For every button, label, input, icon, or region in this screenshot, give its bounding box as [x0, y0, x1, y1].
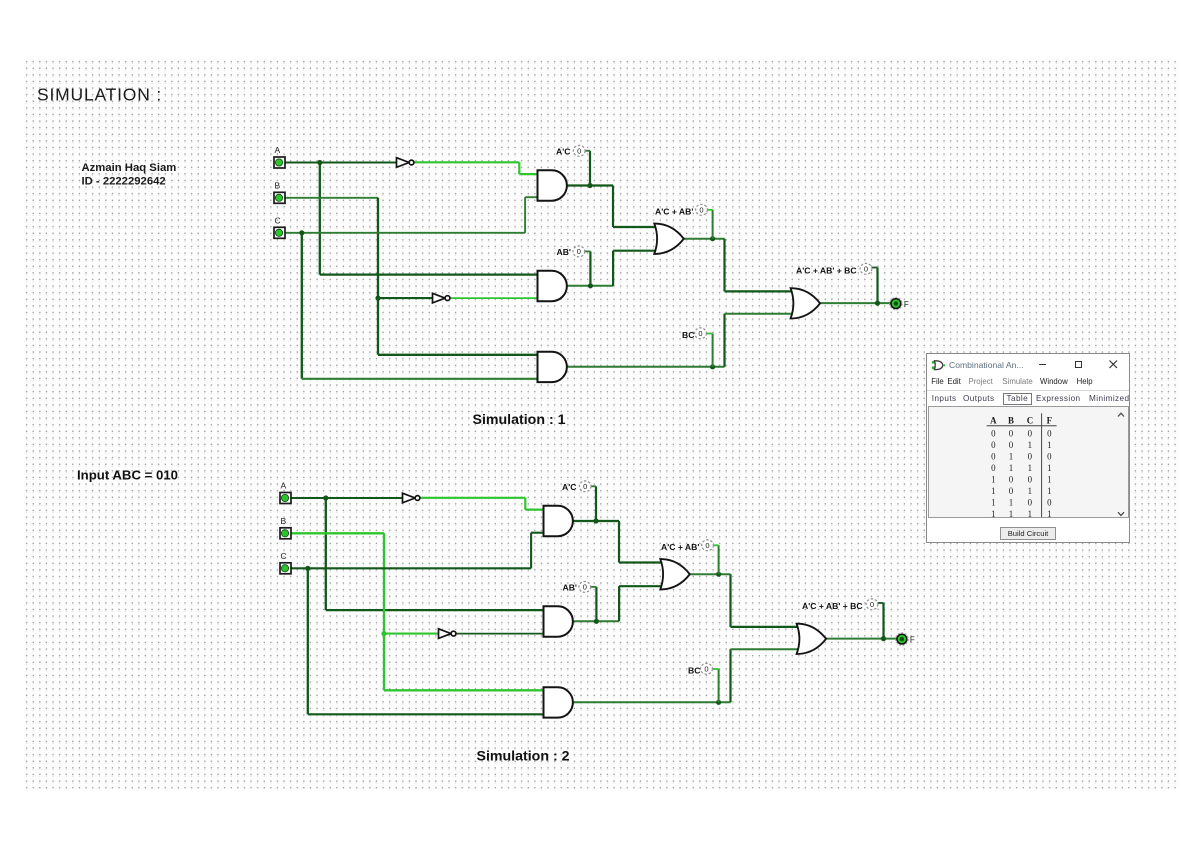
svg-text:A'C + AB': A'C + AB' — [655, 207, 693, 217]
svg-text:1: 1 — [1008, 463, 1012, 473]
svg-text:F: F — [910, 635, 915, 644]
svg-text:C: C — [1026, 415, 1032, 425]
probe A'C + AB' (sim 2) — [702, 540, 714, 551]
OR gate U7 sum2 (sim 2) — [797, 624, 827, 654]
svg-text:1: 1 — [991, 509, 995, 519]
wire AND2 rise to OR1 (sim 1) — [612, 251, 614, 286]
wire C to AND3 bottom input (sim 1) — [302, 378, 539, 380]
node AND2 output node (sim 1) — [588, 283, 593, 288]
truth table — [960, 407, 1100, 523]
node OR2 output node (sim 2) — [881, 636, 886, 641]
svg-text:A'C: A'C — [562, 482, 576, 492]
wire B horizontal (sim 2) — [291, 532, 384, 534]
svg-text:1: 1 — [1047, 440, 1051, 450]
wire NOT1 output (sim 2) — [420, 497, 526, 499]
probe A'C + AB' + BC (sim 2) — [866, 599, 878, 610]
wire AND3 probe stub (sim 1) — [707, 333, 713, 335]
svg-text:C: C — [275, 216, 281, 226]
node AND1 output node (sim 1) — [587, 183, 592, 188]
wire OR2 top input (sim 2) — [731, 626, 800, 628]
svg-text:1: 1 — [1027, 486, 1031, 496]
wire NOT1 output drop (sim 2) — [524, 498, 526, 510]
node OR1 output node (sim 2) — [716, 572, 721, 577]
wire AND1 probe stub (sim 2) — [591, 485, 597, 487]
NOT gate U1 NOT A (sim 1) — [397, 158, 414, 168]
AND gate U5 BC (sim 1) — [538, 352, 567, 382]
wire NOT2 output to AND2 bottom input (sim 2) — [457, 633, 545, 635]
svg-text:B: B — [1008, 415, 1014, 425]
svg-text:1: 1 — [991, 474, 995, 484]
probe A'C + AB' + BC (sim 1) — [860, 263, 872, 274]
svg-text:A'C + AB' + BC: A'C + AB' + BC — [796, 266, 857, 276]
scrollbar down arrow — [1117, 511, 1125, 517]
table panel — [928, 406, 1130, 519]
svg-text:A: A — [990, 415, 997, 425]
wire OR1 drop to OR2 (sim 1) — [723, 239, 725, 292]
svg-text:0: 0 — [991, 428, 996, 438]
AND gate U4 AB-prime (sim 1) — [538, 271, 567, 301]
wire OR2 top input (sim 1) — [725, 290, 794, 292]
svg-text:F: F — [904, 300, 909, 309]
svg-text:0: 0 — [864, 265, 868, 274]
wire A vertical rail (sim 1) — [319, 163, 321, 275]
svg-text:Simulation : 1: Simulation : 1 — [473, 412, 566, 428]
probe A'C (sim 2) — [579, 481, 591, 492]
svg-text:B: B — [275, 181, 281, 191]
wire AND3 output (sim 2) — [573, 701, 731, 703]
wire NOT1 output drop (sim 1) — [518, 162, 520, 174]
node A branch (sim 2) — [323, 495, 328, 500]
titlebar icon — [932, 360, 945, 371]
wire AND1 drop to OR1 (sim 1) — [612, 186, 614, 228]
wire B vertical rail (sim 1) — [377, 198, 379, 355]
input pin A (sim 1) — [274, 157, 285, 168]
svg-text:A: A — [281, 481, 287, 491]
probe A'C + AB' (sim 1) — [696, 204, 708, 215]
minimize button — [1039, 364, 1046, 366]
window title — [949, 360, 1024, 370]
svg-text:Azmain Haq Siam: Azmain Haq Siam — [82, 162, 177, 174]
wire OR1 top input (sim 2) — [619, 561, 664, 563]
AND gate U3 A-primeC (sim 2) — [544, 506, 573, 536]
tab bar — [927, 394, 1129, 406]
svg-text:AB': AB' — [557, 247, 571, 257]
wire A vertical rail (sim 2) — [325, 498, 327, 610]
wire AND2 probe riser (sim 2) — [595, 587, 597, 621]
wire OR2 output (sim 1) — [819, 302, 891, 304]
wire OR1 output (sim 1) — [684, 238, 725, 240]
wire AND1 output (sim 2) — [573, 520, 620, 522]
wire OR1 probe stub (sim 1) — [707, 209, 713, 211]
wire AND2 output (sim 2) — [573, 620, 620, 622]
scrollbar up arrow — [1117, 412, 1125, 418]
node OR1 output node (sim 1) — [710, 236, 715, 241]
svg-text:0: 0 — [577, 247, 581, 256]
svg-text:0: 0 — [1047, 451, 1052, 461]
wire OR2 bottom input (sim 1) — [725, 313, 794, 315]
wire OR2 bottom input (sim 2) — [731, 648, 800, 650]
svg-text:SIMULATION :: SIMULATION : — [37, 84, 162, 104]
node AND1 output node (sim 2) — [593, 518, 598, 523]
node B branch to NOT2 (sim 2) — [381, 631, 386, 636]
svg-text:AB': AB' — [563, 583, 577, 593]
svg-text:0: 0 — [1008, 440, 1013, 450]
node B branch to NOT2 (sim 1) — [375, 296, 380, 301]
wire AND3 output (sim 1) — [567, 366, 725, 368]
svg-text:0: 0 — [705, 541, 709, 550]
wire OR2 probe riser (sim 1) — [876, 268, 878, 304]
svg-text:0: 0 — [1027, 451, 1032, 461]
wire AND3 probe riser (sim 2) — [718, 669, 720, 702]
wire AND3 rise to OR2 (sim 1) — [723, 314, 725, 367]
wire OR2 output (sim 2) — [825, 638, 897, 640]
svg-text:0: 0 — [1027, 474, 1032, 484]
svg-text:Input ABC = 010: Input ABC = 010 — [77, 468, 178, 483]
close button — [1109, 360, 1118, 369]
probe A'C (sim 1) — [573, 145, 585, 156]
wire C to AND3 bottom input (sim 2) — [308, 713, 545, 715]
wire C vertical rail (sim 2) — [307, 568, 309, 714]
OR gate U6 sum1 (sim 1) — [654, 224, 684, 254]
probe AB' (sim 2) — [579, 582, 591, 593]
Build Circuit button — [1000, 527, 1056, 540]
menu bar — [927, 377, 1129, 388]
svg-text:1: 1 — [1047, 463, 1051, 473]
svg-text:0: 0 — [991, 451, 996, 461]
svg-text:0: 0 — [870, 600, 874, 609]
AND gate U4 AB-prime (sim 2) — [544, 606, 573, 636]
wire B to AND3 top input (sim 1) — [378, 354, 539, 356]
output pin F (sim 1) — [890, 297, 903, 310]
menu separator — [927, 390, 1130, 391]
wire B to NOT2 input (sim 2) — [384, 633, 439, 635]
wire B to AND3 top input (sim 2) — [384, 689, 545, 691]
svg-text:0: 0 — [1008, 428, 1013, 438]
wire OR2 probe riser (sim 2) — [882, 603, 884, 639]
wire C to AND1 bottom input (sim 2) — [531, 532, 544, 534]
wire A to AND2 top input (sim 1) — [320, 273, 539, 275]
wire AND1 output (sim 1) — [567, 184, 614, 186]
input pin C (sim 1) — [274, 227, 285, 238]
wire OR1 output (sim 2) — [690, 573, 731, 575]
wire A horizontal (sim 2) — [291, 497, 403, 499]
svg-text:B: B — [281, 516, 287, 526]
svg-text:1: 1 — [1027, 509, 1031, 519]
svg-text:1: 1 — [1008, 497, 1012, 507]
wire B horizontal (sim 1) — [285, 197, 378, 199]
svg-text:0: 0 — [1047, 428, 1052, 438]
wire AND1 probe riser (sim 1) — [589, 151, 591, 186]
wire OR1 probe riser (sim 1) — [712, 210, 714, 239]
input pin C (sim 2) — [280, 563, 291, 574]
wire A horizontal (sim 1) — [285, 161, 397, 163]
node OR2 output node (sim 1) — [875, 301, 880, 306]
svg-text:1: 1 — [991, 486, 995, 496]
svg-text:F: F — [1046, 415, 1051, 425]
wire A-prime to AND1 top input (sim 1) — [519, 173, 538, 175]
wire AND1 drop to OR1 (sim 2) — [618, 521, 620, 563]
svg-text:0: 0 — [699, 206, 703, 215]
wire C vertical rail (sim 1) — [301, 233, 303, 379]
wire OR1 bottom input (sim 1) — [613, 250, 657, 252]
maximize button — [1075, 361, 1082, 368]
wire OR1 top input (sim 1) — [613, 226, 658, 228]
svg-text:A'C: A'C — [556, 146, 570, 156]
wire AND2 output (sim 1) — [567, 285, 614, 287]
wire AND3 probe riser (sim 1) — [712, 334, 714, 367]
svg-text:0: 0 — [577, 147, 581, 156]
node C branch (sim 2) — [305, 566, 310, 571]
NOT gate U1 NOT A (sim 2) — [403, 493, 420, 503]
svg-text:1: 1 — [1008, 509, 1012, 519]
svg-text:1: 1 — [1047, 474, 1051, 484]
probe BC (sim 2) — [701, 663, 713, 674]
svg-text:ID - 2222292642: ID - 2222292642 — [82, 175, 166, 187]
wire AND2 probe riser (sim 1) — [589, 251, 591, 285]
node C branch (sim 1) — [299, 230, 304, 235]
probe BC (sim 1) — [695, 328, 707, 339]
wire AND2 probe stub (sim 2) — [591, 586, 597, 588]
svg-text:A: A — [275, 145, 281, 155]
input pin B (sim 2) — [280, 528, 291, 539]
svg-text:C: C — [281, 551, 287, 561]
wire C horizontal (sim 1) — [285, 232, 525, 234]
svg-text:0: 0 — [1027, 497, 1032, 507]
svg-text:1: 1 — [1027, 440, 1031, 450]
svg-text:A'C + AB' + BC: A'C + AB' + BC — [802, 601, 863, 611]
svg-text:0: 0 — [704, 665, 708, 674]
svg-text:0: 0 — [991, 463, 996, 473]
OR gate U7 sum2 (sim 1) — [791, 288, 821, 318]
svg-text:1: 1 — [1047, 509, 1051, 519]
wire OR1 probe stub (sim 2) — [713, 544, 719, 546]
wire C rise to AND1 (sim 1) — [524, 197, 526, 233]
svg-text:BC: BC — [688, 665, 700, 675]
input pin B (sim 1) — [274, 192, 285, 203]
wire A to AND2 top input (sim 2) — [326, 609, 545, 611]
node A branch (sim 1) — [317, 160, 322, 165]
wire AND2 rise to OR1 (sim 2) — [618, 586, 620, 621]
wire C rise to AND1 (sim 2) — [530, 533, 532, 569]
input pin A (sim 2) — [280, 493, 291, 504]
wire C to AND1 bottom input (sim 1) — [525, 196, 538, 198]
probe AB' (sim 1) — [573, 246, 585, 257]
wire NOT1 output (sim 1) — [414, 161, 520, 163]
NOT gate U2 NOT B (sim 1) — [433, 293, 450, 303]
NOT gate U2 NOT B (sim 2) — [439, 629, 456, 639]
OR gate U6 sum1 (sim 2) — [660, 559, 690, 589]
svg-text:1: 1 — [1008, 451, 1012, 461]
svg-text:0: 0 — [583, 583, 587, 592]
svg-text:0: 0 — [1047, 497, 1052, 507]
wire AND1 probe riser (sim 2) — [595, 486, 597, 521]
wire AND3 probe stub (sim 2) — [713, 668, 719, 670]
wire OR1 drop to OR2 (sim 2) — [729, 574, 731, 627]
svg-text:0: 0 — [991, 440, 996, 450]
svg-text:1: 1 — [1047, 486, 1051, 496]
node AND3 output node (sim 2) — [716, 700, 721, 705]
wire C horizontal (sim 2) — [291, 567, 531, 569]
wire NOT2 output to AND2 bottom input (sim 1) — [451, 297, 539, 299]
Combinational Analysis dialog window — [926, 353, 1131, 543]
AND gate U3 A-primeC (sim 1) — [538, 170, 567, 200]
svg-text:0: 0 — [1008, 474, 1013, 484]
svg-text:0: 0 — [698, 329, 702, 338]
wire OR2 probe stub (sim 2) — [877, 602, 884, 604]
svg-text:Simulation : 2: Simulation : 2 — [477, 749, 570, 765]
output pin F (sim 2) — [896, 633, 909, 646]
node AND3 output node (sim 1) — [710, 364, 715, 369]
svg-text:0: 0 — [1027, 428, 1032, 438]
wire AND1 probe stub (sim 1) — [585, 150, 591, 152]
svg-text:BC: BC — [682, 330, 694, 340]
svg-text:0: 0 — [1008, 486, 1013, 496]
wire OR2 probe stub (sim 1) — [871, 267, 878, 269]
svg-text:1: 1 — [1027, 463, 1031, 473]
wire B to NOT2 input (sim 1) — [378, 297, 433, 299]
wire B vertical rail (sim 2) — [383, 533, 385, 690]
wire AND3 rise to OR2 (sim 2) — [729, 649, 731, 702]
node AND2 output node (sim 2) — [594, 619, 599, 624]
svg-text:1: 1 — [991, 497, 995, 507]
wire OR1 probe riser (sim 2) — [718, 545, 720, 574]
svg-text:0: 0 — [583, 482, 587, 491]
wire AND2 probe stub (sim 1) — [585, 250, 591, 252]
wire OR1 bottom input (sim 2) — [619, 585, 663, 587]
svg-text:A'C + AB': A'C + AB' — [661, 542, 699, 552]
AND gate U5 BC (sim 2) — [544, 687, 573, 717]
wire A-prime to AND1 top input (sim 2) — [525, 509, 544, 511]
